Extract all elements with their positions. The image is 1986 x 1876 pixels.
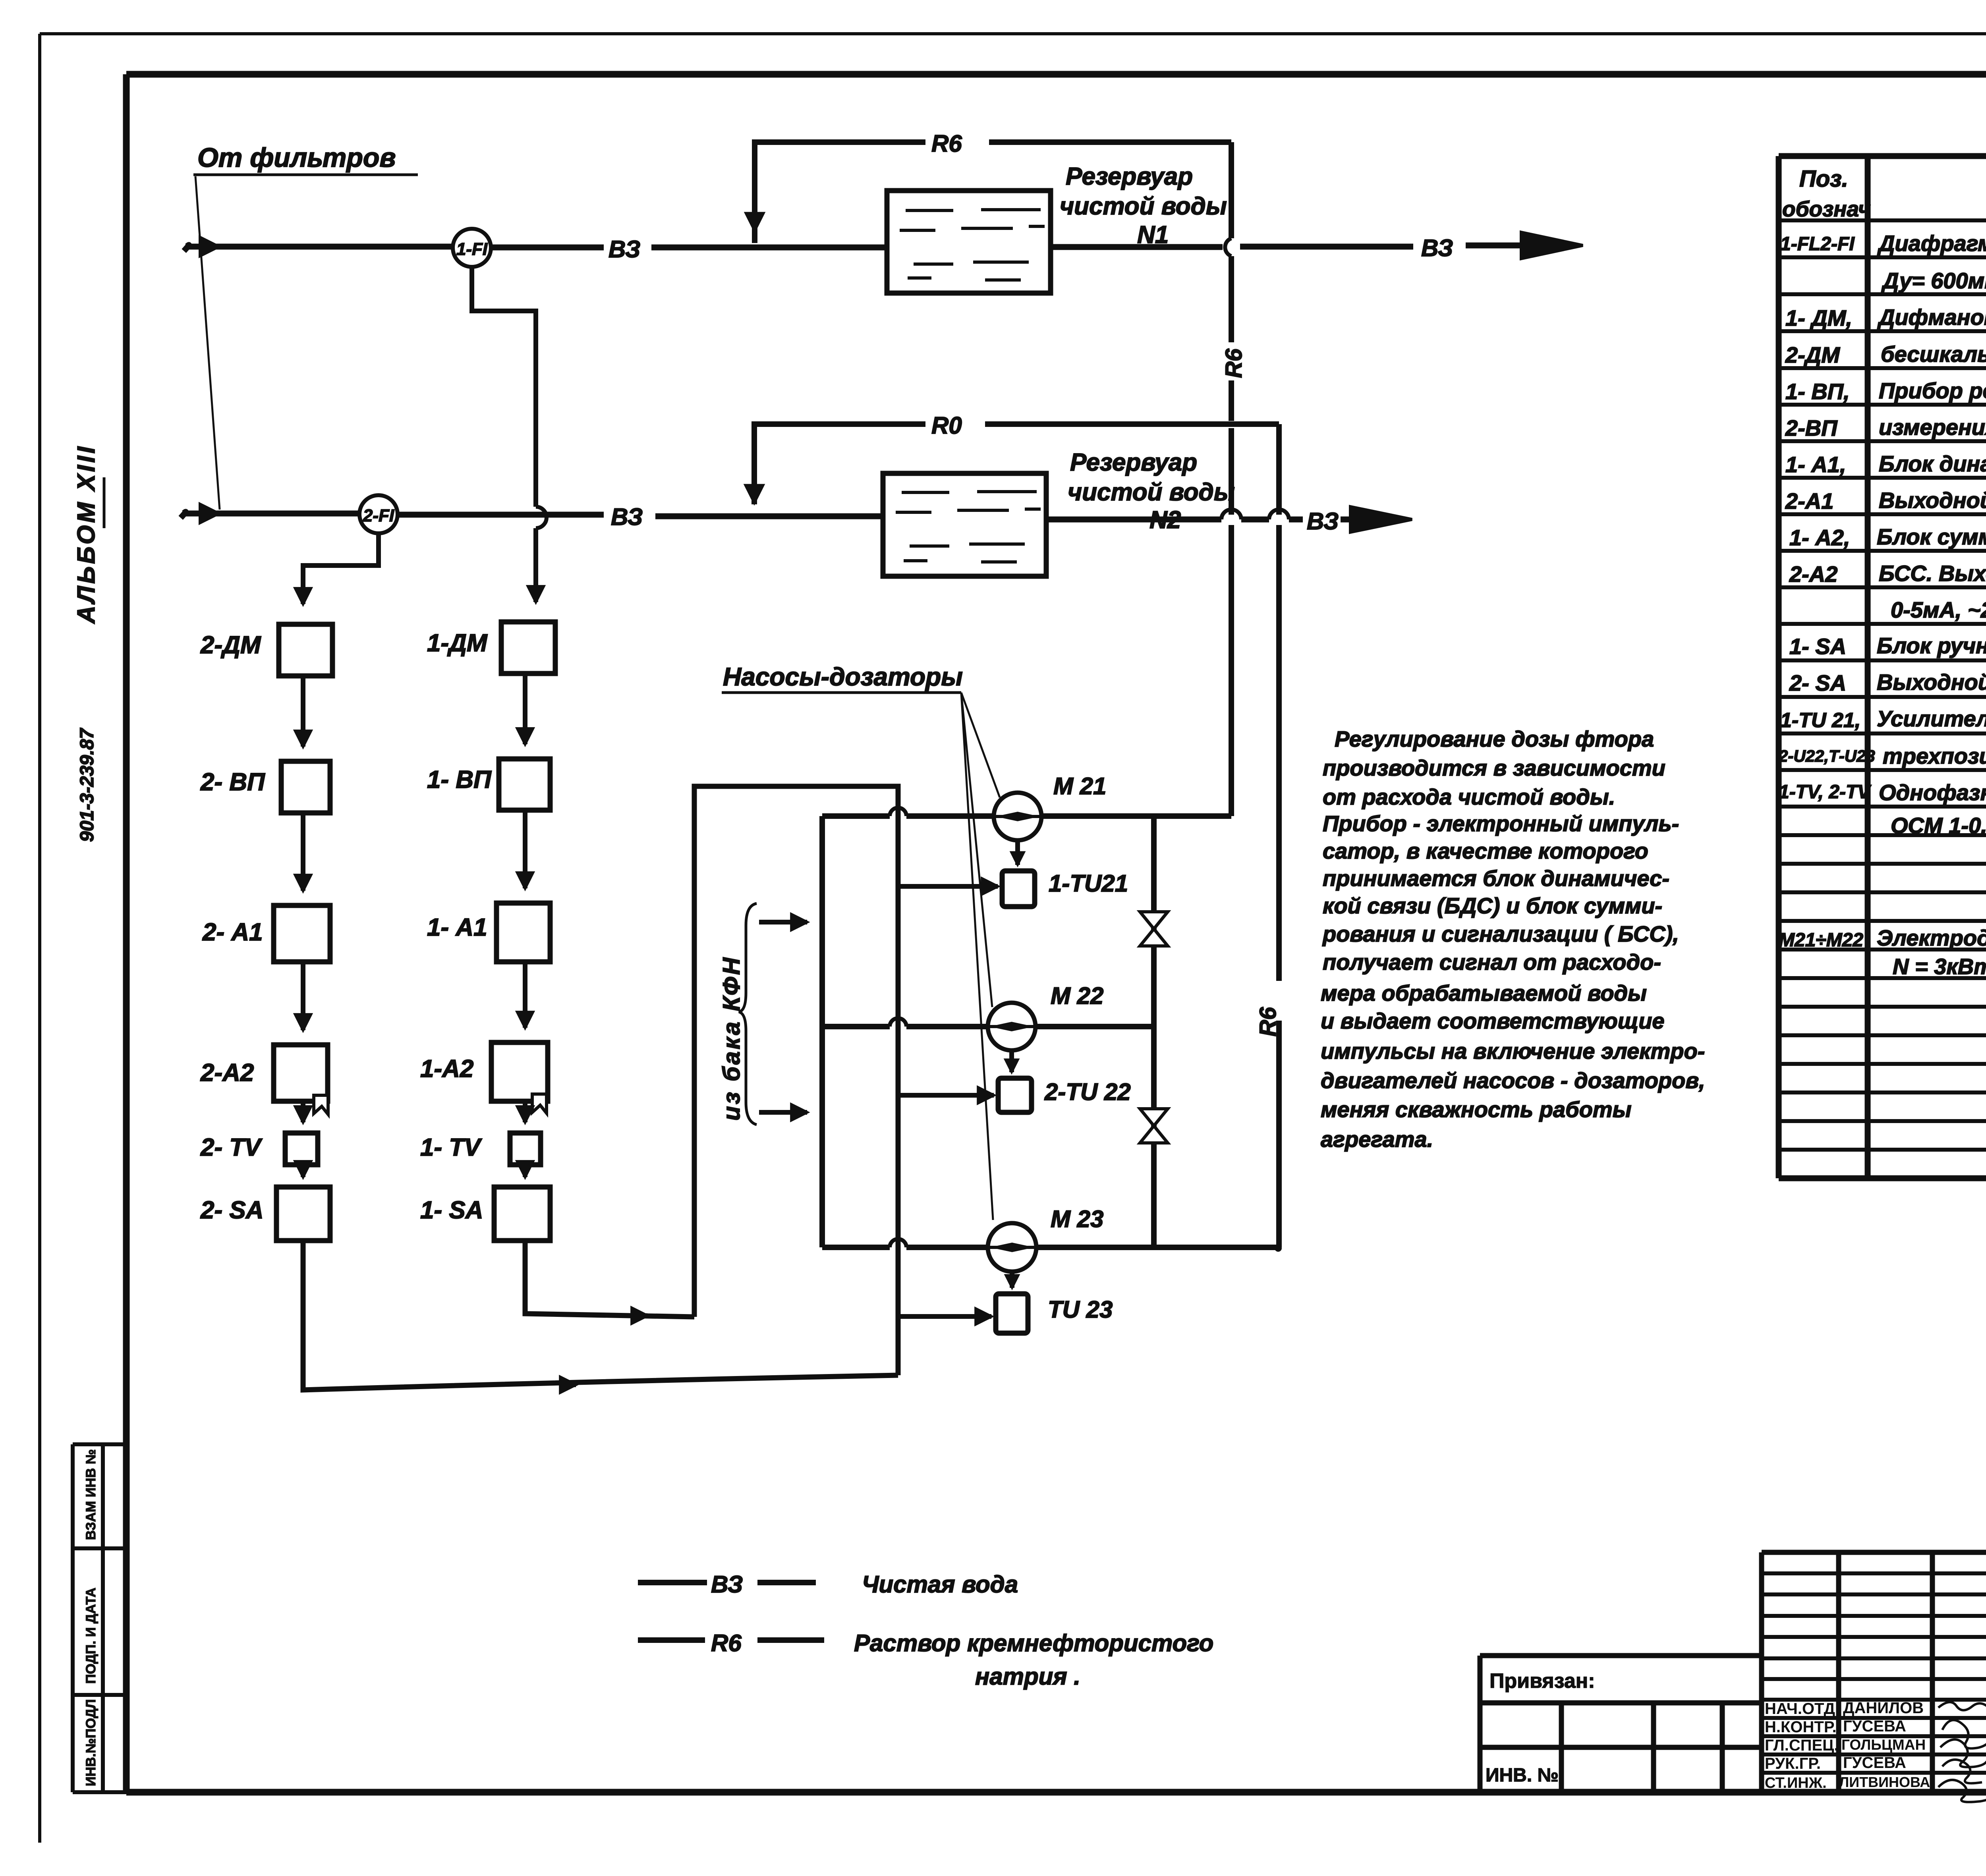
svg-text:НАЧ.ОТД.: НАЧ.ОТД. [1765, 1700, 1839, 1718]
svg-text:РУК.ГР.: РУК.ГР. [1765, 1755, 1821, 1772]
svg-text:1-А2: 1-А2 [420, 1055, 473, 1083]
wire valve branch vertical [1151, 816, 1157, 1247]
wire 2-ДМ to 2-ВП [301, 676, 305, 747]
svg-text:Ду= 600мм Д 62.5-600б ГОСТ1432: Ду= 600мм Д 62.5-600б ГОСТ14322-77 [1881, 268, 1986, 293]
svg-text:1-ДМ: 1-ДМ [427, 629, 488, 657]
wire from 2-FI to 2-ДМ column [303, 533, 379, 604]
svg-text:2- ВП: 2- ВП [200, 768, 265, 796]
svg-text:1- ДМ,: 1- ДМ, [1785, 305, 1852, 330]
wire КФН feed arrow 2 [759, 1110, 807, 1115]
svg-text:ОСМ 1-0.1: ОСМ 1-0.1 [1891, 813, 1986, 838]
svg-text:двигателей насосов - дозаторо: двигателей насосов - дозаторов, [1321, 1068, 1705, 1093]
svg-text:0-5мА, ~220 В.: 0-5мА, ~220 В. [1891, 597, 1986, 622]
svg-text:Выходной сигнал 0-5 мА, ~ 24: Выходной сигнал 0-5 мА, ~ 24В. [1877, 670, 1986, 695]
svg-text:R6: R6 [711, 1630, 742, 1656]
svg-text:От фильтров: От фильтров [197, 143, 396, 173]
wire R6 feed line to reservoir N1 [755, 142, 1231, 243]
svg-text:1-ТU21: 1-ТU21 [1049, 870, 1128, 897]
svg-text:N1: N1 [1137, 221, 1169, 249]
svg-text:ИНВ. №: ИНВ. № [1486, 1765, 1559, 1786]
svg-text:2-U22,Т-U23: 2-U22,Т-U23 [1778, 747, 1875, 765]
wire 1-А2 to 1-ТV [523, 1101, 527, 1122]
svg-text:и выдает соответствующие: и выдает соответствующие [1321, 1008, 1665, 1033]
instrument 1-ТV box [420, 1133, 541, 1165]
wire 1-ВП to 1-А1 [523, 810, 527, 888]
table body texts [1778, 231, 1986, 980]
wire bus to TU23 [898, 1314, 991, 1319]
wire M22 suction line [822, 1018, 1154, 1027]
wire R0 feed line to reservoir N2 [754, 424, 1279, 504]
svg-text:Поз.: Поз. [1799, 166, 1848, 192]
wire from 1-FI to 1-ДМ column [472, 267, 547, 602]
legend line R6 [638, 1630, 1213, 1690]
svg-text:М 23: М 23 [1051, 1206, 1103, 1232]
svg-text:ВЗ: ВЗ [611, 504, 643, 530]
svg-text:1- ВП: 1- ВП [427, 766, 492, 793]
instrument 2-А1 box [202, 905, 330, 962]
label От фильтров [193, 143, 418, 175]
wire R0/R6 vertical drop to M23 line [1276, 424, 1282, 1247]
pump M23 [988, 1206, 1103, 1272]
svg-text:N2: N2 [1149, 506, 1181, 534]
instrument 2-ВП box [200, 761, 330, 813]
svg-text:2-А2: 2-А2 [1789, 562, 1837, 587]
svg-text:Дифманометр мембранный: Дифманометр мембранный [1877, 305, 1986, 330]
equipment table grid [1779, 156, 1986, 1178]
title block signature rows text [1765, 1699, 1930, 1791]
svg-text:1-ТU 21,: 1-ТU 21, [1780, 709, 1860, 732]
leader from От фильтров to inlets [195, 176, 220, 510]
svg-text:обознач: обознач [1782, 197, 1871, 221]
svg-text:R0: R0 [931, 412, 962, 439]
svg-text:ИНВ.№ПОДЛ: ИНВ.№ПОДЛ [83, 1699, 99, 1786]
wire distribution header (left vertical) [819, 816, 825, 1247]
svg-text:Блок динамической связи БДС: Блок динамической связи БДС. [1879, 451, 1986, 476]
svg-text:2-FI: 2-FI [363, 506, 394, 525]
svg-text:БСС. Выходной сигнал: БСС. Выходной сигнал [1879, 561, 1986, 586]
svg-text:сатор, в качестве которого: сатор, в качестве которого [1323, 838, 1648, 863]
svg-text:2-А2: 2-А2 [200, 1059, 254, 1087]
svg-text:Раствор кремнефтористого: Раствор кремнефтористого [854, 1630, 1213, 1656]
svg-text:Резервуар: Резервуар [1070, 449, 1197, 476]
svg-text:1- SA: 1- SA [420, 1197, 483, 1224]
instrument 2-А2 box with flag [200, 1045, 328, 1114]
table header texts [1782, 166, 1986, 222]
valve V1 [1140, 912, 1168, 946]
svg-text:ЛИТВИНОВА: ЛИТВИНОВА [1839, 1774, 1930, 1790]
svg-text:М 21: М 21 [1053, 773, 1106, 799]
wire pipe ВЗ-2 (clean water to reservoir N2) [181, 507, 1412, 532]
svg-text:Резервуар: Резервуар [1066, 163, 1193, 190]
svg-text:АЛЬБОМ XIII: АЛЬБОМ XIII [73, 444, 100, 624]
pump M22 [988, 982, 1103, 1050]
Привязан box [1480, 1656, 1762, 1792]
svg-text:1- А2,: 1- А2, [1789, 525, 1850, 550]
svg-text:Блок ручного управления БРУ-2: Блок ручного управления БРУ-22 [1877, 633, 1986, 658]
svg-text:Прибор - электронный импуль-: Прибор - электронный импуль- [1323, 811, 1679, 836]
svg-text:рования и сигнализации ( БСС): рования и сигнализации ( БСС), [1322, 921, 1679, 946]
svg-text:Усилитель тиристорный: Усилитель тиристорный [1877, 706, 1986, 731]
svg-text:мера обрабатываемой воды: мера обрабатываемой воды [1321, 980, 1647, 1006]
svg-text:2- SA: 2- SA [200, 1197, 263, 1224]
wire M23 suction line [822, 1239, 1282, 1252]
svg-text:Чистая вода: Чистая вода [862, 1571, 1018, 1598]
reservoir N2 tank [883, 473, 1046, 576]
svg-text:чистой воды: чистой воды [1060, 193, 1227, 220]
svg-text:R6: R6 [1221, 348, 1247, 378]
instrument 2-TU22 box [998, 1078, 1131, 1112]
svg-text:получает сигнал от расходо-: получает сигнал от расходо- [1323, 950, 1661, 975]
svg-text:ГУСЕВА: ГУСЕВА [1843, 1754, 1906, 1772]
svg-text:ВЗАМ ИНВ №: ВЗАМ ИНВ № [83, 1449, 99, 1540]
valve V2 [1140, 1109, 1168, 1143]
svg-text:ГУСЕВА: ГУСЕВА [1843, 1718, 1906, 1735]
wire 1-SA down and right to control loop [525, 1241, 694, 1317]
instrument 2-ДМ box [200, 624, 332, 676]
svg-text:2-ДМ: 2-ДМ [200, 631, 261, 659]
svg-text:1- А1: 1- А1 [427, 914, 487, 941]
svg-text:2- ТV: 2- ТV [200, 1134, 263, 1161]
svg-text:агрегата.: агрегата. [1321, 1127, 1433, 1152]
svg-text:М 22: М 22 [1051, 982, 1103, 1009]
svg-text:бесшкальный ~220 В. ДМЭР-М: бесшкальный ~220 В. ДМЭР-М [1881, 342, 1986, 367]
svg-text:чистой воды: чистой воды [1068, 479, 1235, 506]
instrument 2-FI flow meter circle [359, 495, 398, 533]
svg-text:ДАНИЛОВ: ДАНИЛОВ [1843, 1699, 1924, 1717]
svg-text:импульсы на включение электр: импульсы на включение электро- [1321, 1038, 1705, 1063]
pump M21 [994, 773, 1106, 840]
svg-text:N = 3кВт. ~380 В.: N = 3кВт. ~380 В. [1893, 954, 1986, 979]
legend line ВЗ [638, 1571, 1018, 1598]
svg-text:натрия .: натрия . [975, 1663, 1080, 1690]
svg-text:Диафрагма бескамерная: Диафрагма бескамерная [1877, 231, 1986, 256]
instrument 2-ТV box [200, 1133, 318, 1165]
svg-text:М21÷М22: М21÷М22 [1779, 930, 1863, 951]
svg-text:1- А1,: 1- А1, [1785, 452, 1846, 477]
instrument 1-FI flow meter circle [453, 229, 491, 267]
svg-text:ВЗ: ВЗ [1421, 235, 1453, 261]
svg-text:принимается блок динамичес-: принимается блок динамичес- [1323, 866, 1669, 891]
instrument 1-TU21 box [1002, 870, 1128, 907]
svg-text:Выходной сигнал 0-5мА, ~220: Выходной сигнал 0-5мА, ~220В. [1879, 488, 1986, 513]
label Резервуар чистой воды N1 [1060, 163, 1227, 249]
signatures squiggles [1938, 1702, 1986, 1802]
svg-text:ГЛ.СПЕЦ.: ГЛ.СПЕЦ. [1765, 1737, 1839, 1754]
svg-text:2- А1: 2- А1 [202, 919, 263, 946]
wire 2-А1 to 2-А2 [301, 962, 305, 1030]
wire 2-SA down and right to control loop bottom [303, 1241, 898, 1390]
instrument TU23 box [996, 1294, 1113, 1333]
svg-text:1-ТV, 2-ТV: 1-ТV, 2-ТV [1779, 782, 1872, 803]
svg-text:ПОДП. И ДАТА: ПОДП. И ДАТА [83, 1588, 99, 1684]
wire M21 suction line [822, 808, 1231, 816]
label Резервуар чистой воды N2 [1068, 449, 1235, 534]
svg-text:2-ДМ: 2-ДМ [1785, 342, 1840, 367]
wire 1-ТV to 1-SA [523, 1165, 527, 1177]
wire 1-А1 to 1-А2 [523, 962, 527, 1028]
title block small grid [1762, 1551, 1986, 1792]
label из бака КФН rotated [718, 956, 745, 1121]
wire КФН feed arrow 1 [759, 920, 807, 924]
wire 2-ВП to 2-А1 [301, 813, 305, 891]
svg-text:Блок суммирования и сигнализ: Блок суммирования и сигнализации [1877, 524, 1986, 549]
svg-text:1-FI: 1-FI [456, 239, 488, 259]
svg-text:от расхода чистой воды.: от расхода чистой воды. [1323, 784, 1615, 809]
svg-text:Прибор регистрирующий предел: Прибор регистрирующий предел [1879, 378, 1986, 403]
svg-text:ВЗ: ВЗ [1307, 508, 1339, 535]
wire M21 to 1-TU21 [1015, 840, 1020, 865]
wire 1-ДМ to 1-ВП [523, 674, 527, 744]
svg-text:ВЗ: ВЗ [609, 236, 640, 262]
wire control loop up-over-down (1748 up, across, 2260 down) [694, 786, 898, 1375]
instrument 1-ДМ box [427, 622, 555, 674]
wire bus to 1-TU21 [898, 884, 998, 889]
svg-text:СТ.ИНЖ.: СТ.ИНЖ. [1765, 1775, 1827, 1791]
svg-text:2-ВП: 2-ВП [1785, 415, 1838, 440]
svg-text:кой связи (БДС) и блок сумми: кой связи (БДС) и блок сумми- [1323, 893, 1662, 918]
svg-text:ВЗ: ВЗ [711, 1571, 743, 1598]
instrument 1-А2 box with flag [420, 1042, 548, 1113]
wire pipe ВЗ-1 (clean water to reservoir N1) [184, 232, 1583, 259]
svg-text:Электродвигатель 4А100S4: Электродвигатель 4А100S4 [1877, 925, 1986, 950]
wire 2-А2 to 2-ТV [301, 1101, 305, 1122]
svg-text:Н.КОНТР.: Н.КОНТР. [1765, 1718, 1837, 1736]
instrument 1-SA box [420, 1187, 550, 1241]
instrument 1-ВП box [427, 759, 550, 810]
svg-text:2- SA: 2- SA [1789, 670, 1846, 695]
svg-text:1-FL2-FI: 1-FL2-FI [1780, 234, 1855, 255]
svg-text:1- SA: 1- SA [1789, 634, 1846, 659]
wire M23 to TU23 [1010, 1272, 1014, 1288]
svg-text:2-ТU 22: 2-ТU 22 [1044, 1079, 1131, 1105]
svg-text:2-А1: 2-А1 [1785, 488, 1833, 513]
leader lines to pumps [961, 693, 1000, 1220]
svg-text:измерения 0-5мА РП-160-09: измерения 0-5мА РП-160-09 [1879, 415, 1986, 440]
svg-text:Однофазный трансформатор: Однофазный трансформатор [1879, 780, 1986, 805]
svg-text:из бака КФН: из бака КФН [718, 956, 745, 1121]
wire 2-ТV to 2-SA [301, 1165, 305, 1177]
svg-text:Регулирование дозы фтора: Регулирование дозы фтора [1335, 726, 1654, 751]
wire M22 to 2-TU22 [1009, 1050, 1014, 1072]
svg-text:1- ВП,: 1- ВП, [1785, 379, 1850, 404]
instrument 1-А1 box [427, 903, 550, 962]
svg-text:Привязан:: Привязан: [1489, 1669, 1595, 1693]
svg-text:1- ТV: 1- ТV [420, 1134, 482, 1161]
description paragraph [1321, 726, 1705, 1152]
svg-text:трехпозиционный У-22м: трехпозиционный У-22м [1883, 743, 1986, 768]
svg-text:меняя скважность работы: меняя скважность работы [1321, 1097, 1632, 1122]
reservoir N1 tank [887, 191, 1051, 293]
margin stamp boxes (Взам инв / Подп и дата / Инв № подл) [73, 1444, 126, 1792]
instrument 2-SA box [200, 1187, 330, 1241]
svg-text:ГОЛЬЦМАН: ГОЛЬЦМАН [1841, 1737, 1926, 1753]
svg-text:901-3-239.87: 901-3-239.87 [77, 728, 98, 842]
svg-text:R6: R6 [1255, 1007, 1281, 1036]
svg-text:Насосы-дозаторы: Насосы-дозаторы [723, 662, 963, 691]
wire R6 vertical drop to M21 line [1225, 142, 1231, 816]
label Насосы-дозаторы [722, 662, 963, 693]
svg-text:производится в зависимости: производится в зависимости [1323, 755, 1665, 780]
brace for КФН feeds [739, 903, 757, 1125]
svg-text:R6: R6 [931, 130, 962, 157]
wire bus to 2-TU22 [898, 1093, 994, 1098]
svg-text:ТU 23: ТU 23 [1048, 1296, 1113, 1323]
